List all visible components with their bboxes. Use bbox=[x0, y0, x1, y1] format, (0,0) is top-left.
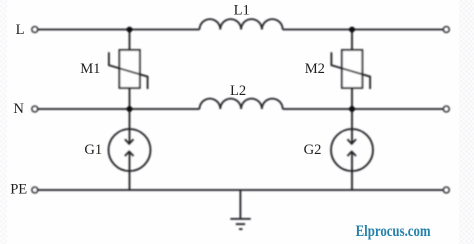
svg-text:M2: M2 bbox=[305, 61, 325, 77]
node L terminal right bbox=[443, 27, 449, 33]
wire M2 to G2 through N bbox=[351, 88, 353, 144]
wire N line left segment bbox=[38, 108, 200, 110]
wire L line right segment bbox=[283, 29, 443, 31]
svg-text:PE: PE bbox=[10, 182, 27, 198]
wire branch2 L to M2 bbox=[351, 30, 353, 51]
junction N-branch2 bbox=[349, 106, 355, 112]
junction N-branch1 bbox=[127, 106, 133, 112]
gas discharge tube G1 bbox=[109, 129, 151, 190]
varistor M2 bbox=[331, 50, 370, 89]
wire M1 to G1 through N bbox=[129, 88, 131, 144]
wire L line left segment bbox=[38, 29, 200, 31]
node PE terminal right bbox=[443, 187, 449, 193]
svg-text:Elprocus.com: Elprocus.com bbox=[356, 223, 431, 240]
node PE terminal left bbox=[32, 187, 38, 193]
inductor L1 bbox=[200, 19, 283, 29]
node N terminal right bbox=[443, 106, 449, 112]
svg-text:L: L bbox=[16, 22, 25, 38]
wire N line right segment bbox=[283, 108, 443, 110]
gas discharge tube G2 bbox=[331, 129, 373, 190]
svg-text:G2: G2 bbox=[304, 142, 322, 158]
svg-text:N: N bbox=[13, 101, 24, 117]
inductor L2 bbox=[200, 99, 283, 109]
node L terminal left bbox=[32, 27, 38, 33]
svg-text:G1: G1 bbox=[84, 142, 102, 158]
svg-text:M1: M1 bbox=[80, 61, 100, 77]
junction L-branch1 bbox=[127, 27, 133, 33]
junction L-branch2 bbox=[349, 27, 355, 33]
svg-text:L1: L1 bbox=[234, 3, 250, 19]
varistor M1 bbox=[109, 50, 148, 89]
node N terminal left bbox=[32, 106, 38, 112]
wire PE line bbox=[38, 189, 443, 191]
wire branch1 L to M1 bbox=[129, 30, 131, 51]
ground bbox=[230, 190, 251, 229]
svg-text:L2: L2 bbox=[230, 83, 246, 99]
